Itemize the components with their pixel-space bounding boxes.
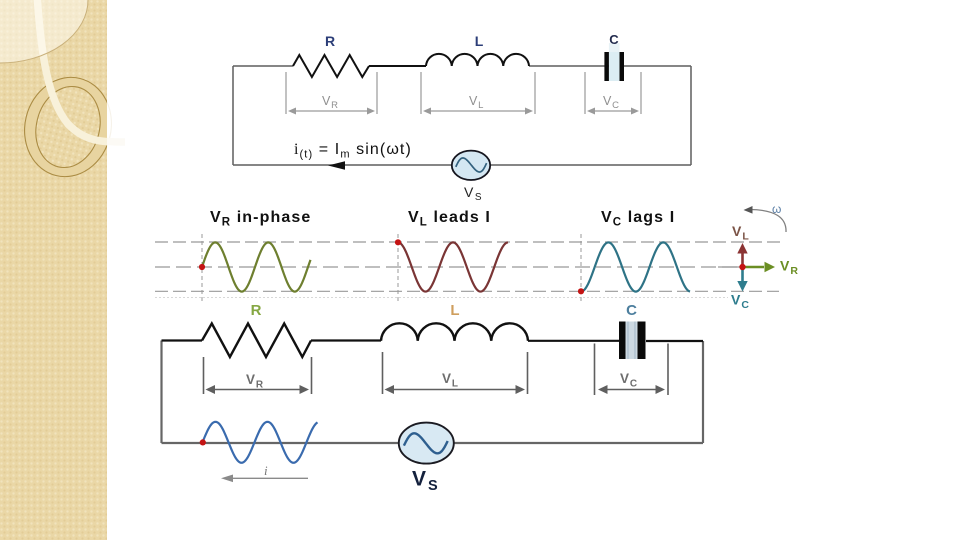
svg-text:i: i <box>264 463 268 478</box>
svg-text:i(t) = Im sin(ωt): i(t) = Im sin(ωt) <box>294 141 412 161</box>
svg-text:VL: VL <box>469 94 484 111</box>
svg-text:VL: VL <box>442 371 459 390</box>
svg-text:VS: VS <box>464 184 483 203</box>
svg-text:L: L <box>475 33 484 49</box>
svg-text:VL leads I: VL leads I <box>408 209 491 229</box>
svg-text:VR: VR <box>322 94 339 111</box>
svg-text:R: R <box>251 302 262 319</box>
svg-text:VL: VL <box>732 223 750 243</box>
svg-text:VC lags I: VC lags I <box>601 209 675 229</box>
svg-text:R: R <box>325 33 335 49</box>
svg-text:VR: VR <box>246 372 264 391</box>
svg-text:C: C <box>626 302 637 319</box>
svg-text:C: C <box>609 32 619 47</box>
svg-text:VR: VR <box>780 258 799 278</box>
svg-text:ω: ω <box>772 202 781 216</box>
svg-text:VS: VS <box>412 468 440 495</box>
svg-text:VR in-phase: VR in-phase <box>210 209 311 229</box>
svg-text:VC: VC <box>603 94 620 111</box>
svg-text:L: L <box>450 302 459 319</box>
svg-text:VC: VC <box>620 371 638 390</box>
svg-text:VC: VC <box>731 292 750 312</box>
